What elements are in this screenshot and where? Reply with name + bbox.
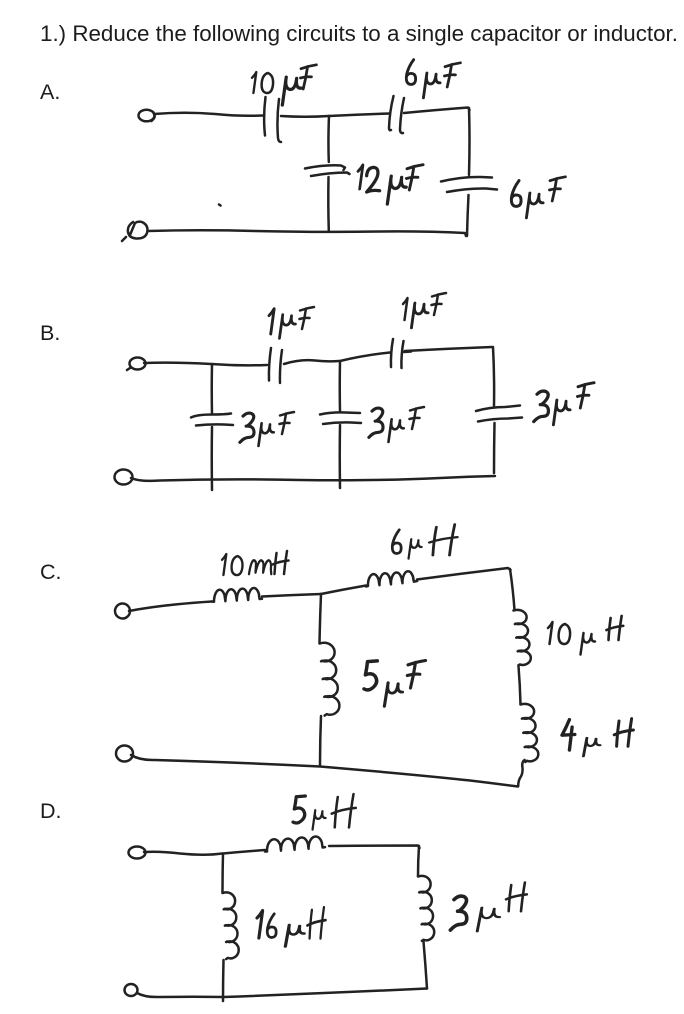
node junction B2 (top of second 3uF branch) xyxy=(339,361,342,412)
terminal C top-left xyxy=(115,604,130,619)
node junction D (top of 16uH branch) xyxy=(221,854,224,893)
wire B third branch lower xyxy=(493,423,496,473)
value label 6uF (right) xyxy=(511,177,565,218)
wire B top segment 3 xyxy=(340,353,390,362)
wire C top segment 1 xyxy=(129,602,212,612)
node junction B1 (top of first 3uF branch) xyxy=(211,364,214,414)
terminal B top-left xyxy=(127,358,146,371)
wire B top segment 4 to corner xyxy=(405,347,492,351)
wire C bottom segment xyxy=(131,755,518,787)
inductor 16uH (left shunt) xyxy=(223,892,239,959)
capacitor 3uF shunt plates (second) xyxy=(320,412,361,424)
value label 6uH xyxy=(392,524,457,558)
inductor 3uH (right shunt) xyxy=(418,876,434,941)
wire C right vertical bottom to corner xyxy=(518,760,524,786)
value label 10mH xyxy=(222,551,289,575)
wire C right vertical upper xyxy=(510,569,515,610)
wire A to C2 xyxy=(329,114,390,117)
wire B right vertical upper xyxy=(493,347,494,406)
wire D top segment 2 xyxy=(223,850,265,854)
value label 10uH xyxy=(548,616,623,655)
wire D top segment 3 to corner xyxy=(329,846,420,849)
wire C right vertical middle xyxy=(519,666,521,704)
wire B bottom segment xyxy=(131,476,495,481)
inductor L2 6uH (series) xyxy=(366,571,417,586)
svg-text:D.: D. xyxy=(40,799,62,823)
inductor L3 10uH (right upper) xyxy=(514,610,531,665)
value label 4uH xyxy=(562,719,633,757)
value label 10uF xyxy=(252,65,316,105)
svg-text:C.: C. xyxy=(40,560,62,584)
wire B second branch lower xyxy=(339,425,342,488)
inductor L4 4uH (right lower) xyxy=(521,704,539,762)
value label 5uH xyxy=(293,794,356,830)
inductor L1 10mH (series) xyxy=(212,588,262,602)
svg-text:A.: A. xyxy=(40,80,60,104)
wire A right vertical lower xyxy=(467,195,469,236)
value label 16uH xyxy=(257,907,326,946)
wire A top-left segment xyxy=(154,113,263,116)
capacitor C3 12uF shunt plates xyxy=(305,165,350,176)
capacitor C4 6uF shunt plates xyxy=(441,177,497,192)
terminal C bottom-left xyxy=(116,746,133,762)
inductor 5uH (series) xyxy=(265,837,325,852)
wire D top segment 1 xyxy=(144,852,222,855)
capacitor 3uF shunt plates (first) xyxy=(191,414,233,426)
terminal D bottom-left xyxy=(125,984,138,996)
terminal D top-left xyxy=(129,847,146,859)
wire A right vertical upper xyxy=(468,108,471,175)
wire A top-right to corner xyxy=(404,108,470,114)
capacitor 3uF shunt plates (third) xyxy=(476,406,522,422)
wire D right vertical upper xyxy=(418,846,419,876)
wire D right vertical lower xyxy=(424,942,428,989)
value label 3uF (second) xyxy=(369,407,424,442)
value label 5uF (middle) xyxy=(364,661,426,707)
value label 1uF (left) xyxy=(269,307,314,338)
wire B top segment 1 xyxy=(144,363,267,366)
wire C top segment 3 xyxy=(321,586,366,595)
capacitor 1uF series plates (left) xyxy=(269,348,282,383)
capacitor C1 10uF series plates xyxy=(264,97,281,142)
value label 3uF (first) xyxy=(240,412,294,446)
node junction C (top of middle branch) xyxy=(320,594,322,643)
terminal A bottom-left xyxy=(122,222,148,241)
svg-text:1.) Reduce the following circu: 1.) Reduce the following circuits to a s… xyxy=(40,21,678,46)
inductor L5 5uF-labelled shunt (middle) xyxy=(320,643,340,716)
wire C top segment 4 to corner xyxy=(417,568,511,580)
wire C middle branch lower xyxy=(320,716,321,766)
wire B top segment 2 xyxy=(284,360,339,364)
terminal A top-left xyxy=(139,110,155,122)
wire A bottom segment xyxy=(148,230,466,236)
stray pen dot xyxy=(219,205,221,206)
wire D left branch lower xyxy=(222,960,225,1001)
capacitor C2 6uF series plates xyxy=(389,96,404,133)
wire B first branch lower xyxy=(211,427,214,490)
svg-text:B.: B. xyxy=(40,321,60,345)
wire D bottom segment xyxy=(137,989,427,998)
value label 1uF (right) xyxy=(403,293,446,328)
value label 3uF (third) xyxy=(534,383,594,425)
value label 3uH xyxy=(450,883,526,932)
wire A top-middle segment xyxy=(281,115,329,118)
terminal B bottom-left xyxy=(115,470,133,485)
wire C top segment 2 xyxy=(262,594,321,597)
value label 6uF (top) xyxy=(406,60,460,98)
capacitor 1uF series plates (right) xyxy=(391,339,411,368)
value label 12uF xyxy=(358,165,423,204)
wire 12uF branch lower xyxy=(327,177,330,231)
node junction A (top of 12uF branch) xyxy=(327,116,330,162)
